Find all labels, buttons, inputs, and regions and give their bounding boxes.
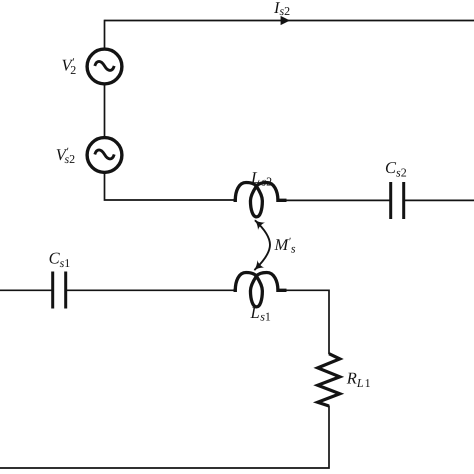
svg-text:V′2: V′2 bbox=[62, 56, 77, 77]
mutual coupling arrow M's bbox=[254, 220, 270, 270]
wire Cs2 to right edge bbox=[404, 199, 474, 201]
svg-text:M′s: M′s bbox=[274, 235, 296, 256]
current arrow Is2 bbox=[281, 16, 290, 25]
wire top-left vertical bbox=[104, 20, 106, 49]
wire lower-left to Cs1 bbox=[0, 289, 52, 291]
svg-text:Is2: Is2 bbox=[273, 0, 290, 18]
voltage source V's2 bbox=[87, 138, 122, 173]
wire top horizontal bbox=[105, 20, 474, 22]
svg-text:Cs2: Cs2 bbox=[385, 158, 407, 179]
wire Ls1 to RL1 bbox=[285, 290, 329, 354]
svg-text:Cs1: Cs1 bbox=[49, 249, 71, 270]
wire between sources bbox=[104, 85, 106, 138]
capacitor Cs2 bbox=[391, 182, 404, 219]
wire mid rail to Cs2 bbox=[285, 199, 390, 201]
wire Cs1 to Ls1 bbox=[66, 289, 236, 291]
capacitor Cs1 bbox=[53, 272, 66, 309]
inductor Ls2 bbox=[234, 183, 287, 217]
svg-text:RL1: RL1 bbox=[346, 369, 371, 390]
resistor RL1 bbox=[318, 354, 340, 406]
inductor Ls1 bbox=[234, 273, 287, 307]
svg-text:V′s2: V′s2 bbox=[56, 145, 75, 166]
wire from V's2 to mid rail bbox=[105, 173, 236, 200]
voltage source V'2 bbox=[87, 49, 122, 84]
wire RL1 to bottom rail bbox=[0, 406, 329, 469]
